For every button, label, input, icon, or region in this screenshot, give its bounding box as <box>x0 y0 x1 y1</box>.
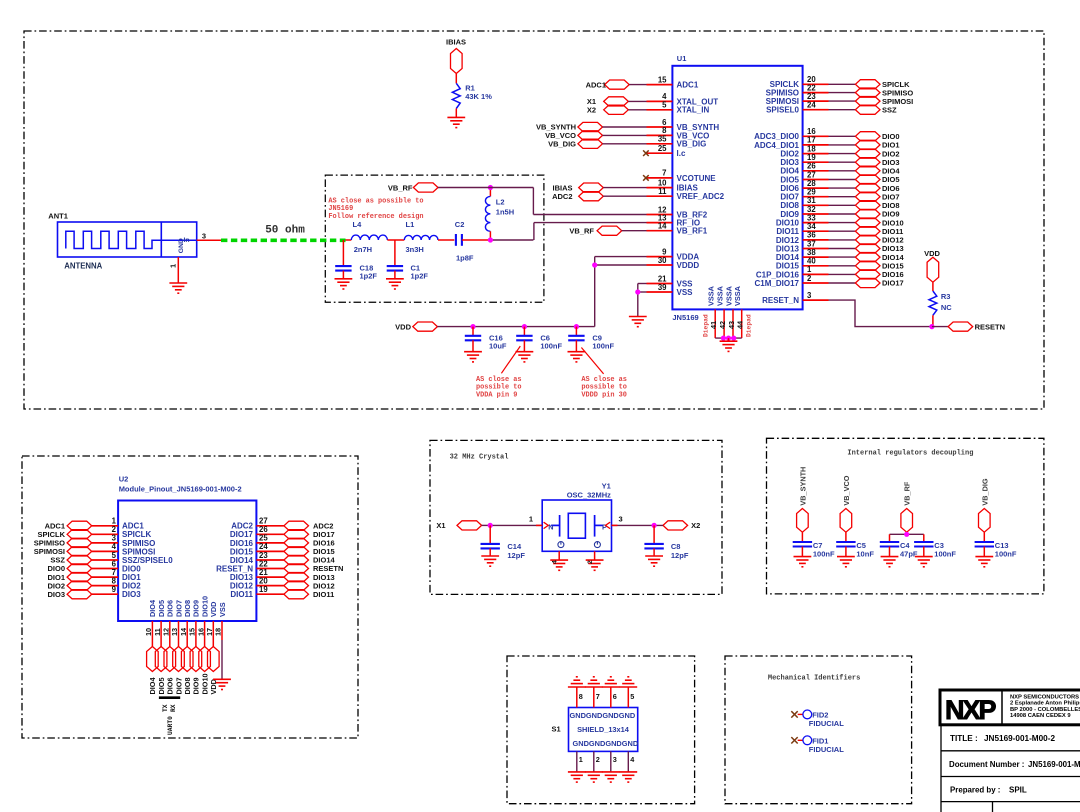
svg-text:DIO8: DIO8 <box>183 677 192 694</box>
svg-text:DIO8: DIO8 <box>882 201 900 210</box>
svg-text:VB_RF: VB_RF <box>388 183 413 192</box>
svg-text:DIO8: DIO8 <box>780 201 799 210</box>
svg-text:FIDUCIAL: FIDUCIAL <box>809 745 844 754</box>
svg-text:C2: C2 <box>455 220 465 229</box>
svg-text:35: 35 <box>658 135 667 144</box>
svg-text:DIO3: DIO3 <box>47 590 65 599</box>
svg-text:Module_Pinout_JN5169-001-M00-2: Module_Pinout_JN5169-001-M00-2 <box>119 485 242 494</box>
svg-text:L2: L2 <box>496 198 505 207</box>
svg-text:9: 9 <box>112 585 117 594</box>
svg-text:39: 39 <box>658 283 667 292</box>
svg-text:SPISEL0: SPISEL0 <box>766 106 799 115</box>
svg-text:4: 4 <box>630 755 635 764</box>
svg-text:DIO8: DIO8 <box>183 600 192 617</box>
svg-text:100nF: 100nF <box>592 342 614 351</box>
svg-text:VDD: VDD <box>395 322 411 331</box>
svg-text:100nF: 100nF <box>995 550 1017 559</box>
svg-text:100nF: 100nF <box>813 550 835 559</box>
svg-text:VSSA: VSSA <box>707 285 716 306</box>
svg-text:VDDA pin 9: VDDA pin 9 <box>476 391 517 399</box>
svg-text:R3: R3 <box>941 292 951 301</box>
svg-text:VDDD: VDDD <box>677 261 700 270</box>
svg-text:100nF: 100nF <box>934 550 956 559</box>
svg-text:17: 17 <box>807 136 816 145</box>
svg-text:DIO11: DIO11 <box>776 227 799 236</box>
svg-text:SPIL: SPIL <box>1009 785 1027 794</box>
svg-text:Y1: Y1 <box>602 482 611 491</box>
svg-text:C1M_DIO17: C1M_DIO17 <box>755 279 800 288</box>
svg-text:DIO11: DIO11 <box>882 227 903 236</box>
svg-text:VDD: VDD <box>924 249 940 258</box>
svg-text:ADC1: ADC1 <box>677 81 699 90</box>
svg-text:DIO10: DIO10 <box>200 673 209 694</box>
svg-text:VB_RF: VB_RF <box>569 226 594 235</box>
svg-text:VSSA: VSSA <box>725 285 734 306</box>
svg-text:ADC1: ADC1 <box>586 80 606 89</box>
svg-text:TITLE :: TITLE : <box>950 734 978 743</box>
svg-text:GNDGNDGNDGND: GNDGNDGNDGND <box>570 711 636 720</box>
svg-text:41: 41 <box>709 321 718 329</box>
svg-text:X1: X1 <box>436 521 445 530</box>
svg-text:VREF_ADC2: VREF_ADC2 <box>677 192 725 201</box>
svg-text:4: 4 <box>552 560 559 564</box>
svg-text:X2: X2 <box>691 521 700 530</box>
svg-text:NC: NC <box>941 303 952 312</box>
svg-text:14: 14 <box>658 222 667 231</box>
svg-text:DIO17: DIO17 <box>882 279 904 288</box>
svg-text:VB_DIG: VB_DIG <box>980 478 989 505</box>
svg-text:OSC_32MHz: OSC_32MHz <box>567 491 611 500</box>
svg-text:VB_SYNTH: VB_SYNTH <box>798 467 807 506</box>
svg-text:44: 44 <box>736 320 745 329</box>
svg-text:8: 8 <box>579 692 583 701</box>
svg-text:25: 25 <box>658 144 667 153</box>
svg-text:DIO1: DIO1 <box>882 141 900 150</box>
svg-text:32 MHz Crystal: 32 MHz Crystal <box>450 454 509 462</box>
svg-text:SSZ: SSZ <box>882 105 897 114</box>
svg-text:P: P <box>602 523 607 532</box>
svg-text:ANT1: ANT1 <box>48 212 68 221</box>
svg-text:DIO15: DIO15 <box>882 261 904 270</box>
svg-text:3: 3 <box>807 291 812 300</box>
svg-text:ADC2: ADC2 <box>552 192 572 201</box>
svg-text:Diepad: Diepad <box>746 314 753 337</box>
svg-text:1n5H: 1n5H <box>496 208 514 217</box>
svg-text:BP 2000 - COLOMBELLES: BP 2000 - COLOMBELLES <box>1010 707 1080 713</box>
svg-text:VB_RF: VB_RF <box>903 481 912 505</box>
svg-text:NXP: NXP <box>945 695 997 725</box>
svg-text:1p2F: 1p2F <box>411 271 429 280</box>
svg-text:JN5169-001-M00-2: JN5169-001-M00-2 <box>984 734 1055 743</box>
svg-text:VSS: VSS <box>677 288 694 297</box>
svg-text:2: 2 <box>807 274 812 283</box>
svg-text:2 Esplanade Anton Philips: 2 Esplanade Anton Philips <box>1010 701 1080 707</box>
svg-text:VB_VCO: VB_VCO <box>842 475 851 505</box>
svg-text:1p8F: 1p8F <box>456 254 474 263</box>
svg-text:50 ohm: 50 ohm <box>265 224 305 236</box>
svg-text:5: 5 <box>662 101 667 110</box>
svg-text:14908 CAEN CEDEX 9: 14908 CAEN CEDEX 9 <box>1010 713 1071 719</box>
svg-text:TX: TX <box>162 704 169 712</box>
svg-text:DIO11: DIO11 <box>313 590 334 599</box>
svg-text:1: 1 <box>169 264 178 268</box>
svg-text:5: 5 <box>630 692 634 701</box>
svg-text:Document Number :: Document Number : <box>949 760 1024 769</box>
svg-text:VB_RF1: VB_RF1 <box>677 227 708 236</box>
svg-text:U2: U2 <box>119 475 129 484</box>
svg-text:DIO7: DIO7 <box>174 600 183 617</box>
svg-text:ADC4_DIO1: ADC4_DIO1 <box>754 141 799 150</box>
svg-text:DIO4: DIO4 <box>148 677 157 695</box>
svg-text:S1: S1 <box>552 725 561 734</box>
svg-text:VB_DIG: VB_DIG <box>548 140 576 149</box>
svg-text:6: 6 <box>613 692 617 701</box>
svg-text:10nF: 10nF <box>856 550 874 559</box>
svg-text:GND: GND <box>178 238 185 253</box>
svg-text:38: 38 <box>807 248 816 257</box>
svg-text:l.c: l.c <box>677 149 686 158</box>
svg-text:10uF: 10uF <box>489 342 507 351</box>
svg-text:ANTENNA: ANTENNA <box>64 261 102 270</box>
svg-text:DIO15: DIO15 <box>776 262 800 271</box>
svg-text:1p2F: 1p2F <box>360 271 378 280</box>
svg-text:2n7H: 2n7H <box>354 245 372 254</box>
svg-text:100nF: 100nF <box>540 342 562 351</box>
svg-text:Internal regulators decoupling: Internal regulators decoupling <box>847 450 973 458</box>
svg-text:19: 19 <box>259 585 268 594</box>
svg-text:VDDD pin 30: VDDD pin 30 <box>581 391 627 399</box>
svg-text:DIO5: DIO5 <box>157 600 166 617</box>
svg-text:1: 1 <box>579 755 583 764</box>
svg-text:VDD: VDD <box>209 602 218 617</box>
svg-text:Follow reference design: Follow reference design <box>328 213 423 221</box>
svg-text:DIO4: DIO4 <box>148 599 157 617</box>
svg-text:N: N <box>548 523 553 532</box>
svg-text:26: 26 <box>807 162 816 171</box>
svg-text:31: 31 <box>807 196 816 205</box>
svg-text:7: 7 <box>662 169 666 178</box>
svg-text:1: 1 <box>529 515 533 524</box>
svg-text:RESETN: RESETN <box>975 322 1005 331</box>
svg-text:Prepared by :: Prepared by : <box>950 785 1000 794</box>
svg-text:L4: L4 <box>353 220 363 229</box>
svg-text:2: 2 <box>587 560 594 564</box>
svg-text:JN5169: JN5169 <box>672 313 698 322</box>
svg-text:NXP SEMICONDUCTORS: NXP SEMICONDUCTORS <box>1010 695 1079 701</box>
svg-text:DIO9: DIO9 <box>192 600 201 617</box>
svg-text:VSSA: VSSA <box>716 285 725 306</box>
svg-text:Mechanical Identifiers: Mechanical Identifiers <box>768 674 860 682</box>
svg-text:24: 24 <box>807 101 816 110</box>
svg-text:11: 11 <box>658 187 667 196</box>
svg-text:15: 15 <box>658 75 667 84</box>
svg-text:12pF: 12pF <box>507 551 525 560</box>
svg-text:DIO4: DIO4 <box>780 167 799 176</box>
svg-text:VSSA: VSSA <box>733 285 742 306</box>
svg-text:12pF: 12pF <box>671 551 689 560</box>
svg-text:X2: X2 <box>587 106 596 115</box>
svg-text:VCOTUNE: VCOTUNE <box>677 174 717 183</box>
svg-text:GNDGNDGNDGND: GNDGNDGNDGND <box>573 739 639 748</box>
svg-text:FIDUCIAL: FIDUCIAL <box>809 719 844 728</box>
svg-text:DIO6: DIO6 <box>166 600 175 617</box>
svg-text:U1: U1 <box>677 54 687 63</box>
svg-text:34: 34 <box>807 222 816 231</box>
svg-text:RESET_N: RESET_N <box>762 296 799 305</box>
svg-text:JN5169-001-M0: JN5169-001-M0 <box>1028 760 1080 769</box>
svg-text:Diepad: Diepad <box>703 314 710 337</box>
svg-text:7: 7 <box>596 692 600 701</box>
svg-text:L1: L1 <box>406 220 415 229</box>
svg-text:3: 3 <box>619 515 623 524</box>
svg-text:RX: RX <box>170 704 177 712</box>
svg-text:VDD: VDD <box>209 679 218 694</box>
svg-text:VB_DIG: VB_DIG <box>677 140 707 149</box>
svg-text:2: 2 <box>596 755 600 764</box>
svg-text:DIO10: DIO10 <box>200 596 209 617</box>
svg-text:43K 1%: 43K 1% <box>465 92 492 101</box>
svg-text:3n3H: 3n3H <box>406 245 424 254</box>
svg-text:30: 30 <box>658 256 667 265</box>
svg-text:43: 43 <box>727 321 736 329</box>
svg-text:3: 3 <box>202 231 206 240</box>
svg-text:DIO3: DIO3 <box>122 590 141 599</box>
svg-text:3: 3 <box>613 755 617 764</box>
svg-text:XTAL_IN: XTAL_IN <box>677 106 710 115</box>
svg-text:IBIAS: IBIAS <box>446 38 466 47</box>
svg-text:UART0: UART0 <box>167 716 174 735</box>
svg-text:DIO6: DIO6 <box>166 677 175 694</box>
svg-text:VSS: VSS <box>218 602 227 617</box>
svg-text:SHIELD_13x14: SHIELD_13x14 <box>577 725 630 734</box>
svg-text:DIO11: DIO11 <box>230 590 253 599</box>
svg-text:42: 42 <box>718 321 727 329</box>
svg-text:DIO4: DIO4 <box>882 167 900 176</box>
svg-text:DIO5: DIO5 <box>157 677 166 694</box>
svg-text:DIO7: DIO7 <box>174 677 183 694</box>
svg-text:DIO9: DIO9 <box>192 677 201 694</box>
